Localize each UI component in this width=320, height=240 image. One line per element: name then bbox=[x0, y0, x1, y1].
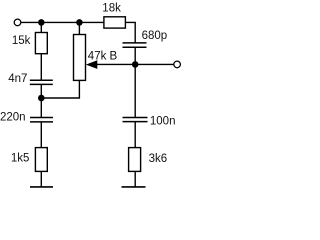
wire 15k top lead bbox=[40, 22, 42, 32]
potentiometer 47k B bbox=[74, 35, 86, 81]
node junction right bbox=[132, 61, 139, 68]
wire 680p to node bbox=[134, 47, 136, 64]
wire node to pot bottom bbox=[41, 80, 79, 98]
capacitor 220n bbox=[30, 118, 53, 122]
svg-text:680p: 680p bbox=[142, 30, 168, 42]
wire node to 220n bbox=[40, 98, 42, 118]
svg-text:220n: 220n bbox=[0, 111, 26, 123]
node junction left-mid bbox=[38, 95, 45, 102]
capacitor 680p bbox=[123, 43, 147, 47]
wire input to 18k bbox=[21, 21, 104, 23]
wire node to output bbox=[135, 63, 174, 65]
svg-text:100n: 100n bbox=[150, 115, 176, 127]
node junction top-left bbox=[38, 19, 45, 26]
capacitor 100n bbox=[123, 118, 148, 122]
resistor 3k6 bbox=[129, 148, 141, 172]
wire 4n7 to node bbox=[40, 84, 42, 98]
wire 100n to 3k6 bbox=[134, 122, 136, 148]
input terminal bbox=[14, 19, 21, 26]
wire 1k5 to ground bbox=[40, 171, 42, 187]
resistor 15k bbox=[35, 33, 47, 54]
node junction top-mid bbox=[76, 19, 83, 26]
resistor 18k bbox=[104, 17, 126, 28]
svg-text:3k6: 3k6 bbox=[149, 153, 168, 165]
wire 220n to 1k5 bbox=[40, 122, 42, 148]
wire pot top lead bbox=[78, 22, 80, 34]
wire wiper to node bbox=[96, 63, 135, 65]
ground left bbox=[30, 186, 53, 188]
wire 3k6 to ground bbox=[134, 171, 136, 187]
wiper arrow bbox=[86, 60, 98, 69]
svg-text:4n7: 4n7 bbox=[8, 73, 27, 85]
resistor 1k5 bbox=[35, 148, 47, 172]
svg-text:1k5: 1k5 bbox=[11, 153, 30, 165]
ground right bbox=[122, 186, 146, 188]
wire node to 100n bbox=[134, 64, 136, 117]
svg-text:47k B: 47k B bbox=[88, 50, 118, 62]
output terminal bbox=[174, 61, 181, 68]
svg-text:18k: 18k bbox=[102, 2, 121, 14]
svg-text:15k: 15k bbox=[12, 35, 31, 47]
capacitor 4n7 bbox=[30, 80, 53, 84]
wire 18k to 680p bbox=[125, 22, 135, 43]
wire 15k to 4n7 bbox=[40, 54, 42, 81]
